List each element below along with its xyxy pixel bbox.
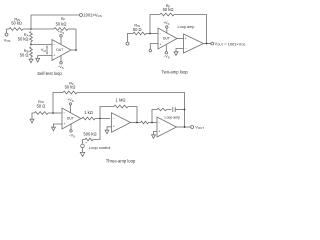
minus sign DUT U4 — [63, 111, 65, 115]
capacitor feedback U6 — [173, 107, 175, 112]
wire R_F to output riser (two-amp) — [174, 15, 207, 44]
label R_IN (two-amp) — [134, 23, 140, 28]
wire feedback resistor to capacitor — [167, 109, 172, 111]
svg-text:Self-test loop: Self-test loop — [37, 71, 62, 76]
node A junction — [99, 118, 101, 120]
terminal +V_S (U4) — [69, 103, 71, 105]
label loop amp (three-amp) — [165, 115, 181, 119]
label +V_S (U4) — [67, 98, 73, 103]
wire U6 noninverting input to ground — [154, 132, 158, 135]
plus sign U3 — [185, 37, 187, 41]
svg-text:−: − — [113, 117, 115, 121]
wire loop control terminal to ground — [82, 148, 84, 153]
wire interstage resistor to U6 — [149, 122, 158, 124]
label DUT U4 — [67, 117, 74, 121]
wire riser R_F to DUT output — [75, 29, 77, 50]
svg-text:+: + — [158, 129, 160, 133]
feedback resistor U6 — [157, 108, 167, 111]
label 50 kOhm (R_A) — [18, 36, 29, 41]
wire R_IN to DUT node — [146, 33, 158, 35]
label 50 kOhm (R_IN) — [11, 21, 22, 26]
ground at DUT U4 noninverting input — [51, 127, 55, 131]
svg-text:50 Ω: 50 Ω — [37, 103, 46, 108]
label 50 kOhm (R_F) — [56, 22, 67, 27]
resistor 1 kOhm — [82, 117, 95, 120]
label R_IN — [14, 17, 20, 22]
output junction (three-amp) — [184, 126, 186, 128]
label V_id — [41, 48, 46, 53]
ground at U3 inverting input — [174, 52, 178, 56]
terminal -V_S (U1) — [60, 62, 63, 65]
label -V_S (U4) — [69, 133, 75, 138]
label 50 kOhm (two-amp R_F) — [163, 7, 174, 12]
wire node 1 to R_F — [31, 28, 54, 30]
wire 1 kOhm to node A — [95, 118, 110, 120]
svg-text:+: + — [113, 125, 115, 129]
terminal -V_S (U4) — [70, 130, 72, 132]
svg-text:DUT: DUT — [67, 117, 74, 121]
wire U6 output — [177, 126, 191, 128]
wire R_F to output riser — [68, 28, 76, 30]
caption two-amp loop — [161, 70, 188, 75]
minus sign U6 — [158, 121, 160, 125]
resistor R_IN 50 Ohm (three-amp) — [35, 112, 49, 115]
terminal -V_S (U2) — [165, 52, 167, 54]
svg-text:−: − — [63, 111, 65, 115]
svg-text:+: + — [53, 53, 55, 57]
label R_IN (three-amp) — [38, 99, 44, 104]
svg-text:Two-amp loop: Two-amp loop — [161, 70, 188, 75]
wire output rail top — [31, 14, 79, 16]
summing node (two-amp) — [149, 33, 151, 35]
op-amp DUT U4 — [62, 108, 81, 129]
svg-text:VOUT: VOUT — [195, 125, 204, 130]
feedback junction on riser — [184, 109, 186, 111]
V_id measurement arrow — [46, 45, 48, 54]
wire node A to 500 kOhm — [93, 119, 100, 140]
ground below loop control — [80, 152, 84, 156]
terminal at DUT U2 noninverting input — [149, 49, 151, 51]
resistor R_B 50 Ohm — [30, 47, 33, 57]
wire riser node 1 to output rail — [30, 15, 32, 29]
svg-text:Loop amp: Loop amp — [178, 25, 195, 29]
positive supply lead DUT U1 — [60, 37, 62, 44]
terminal V_os — [5, 33, 8, 36]
svg-text:−: − — [158, 121, 160, 125]
node 1 junction — [30, 28, 32, 30]
ground below R_B — [29, 59, 33, 63]
wire 500 kOhm to loop control terminal — [83, 140, 86, 145]
label R_F (two-amp) — [166, 3, 171, 8]
terminal 1001xVos — [80, 14, 83, 17]
resistor R_F 50 kOhm — [54, 28, 68, 31]
label 50 Ohm (R_B) — [20, 52, 29, 57]
ground at U6 noninverting input — [152, 135, 156, 139]
wire R_A to node 2 — [30, 42, 32, 45]
wire riser to R_F rail — [150, 15, 160, 34]
svg-text:−: − — [185, 46, 187, 50]
minus sign DUT U2 — [159, 32, 161, 36]
wire DUT output — [71, 49, 76, 51]
negative supply lead DUT U1 — [60, 56, 62, 62]
minus sign DUT U1 — [53, 43, 55, 47]
svg-text:50 kΩ: 50 kΩ — [11, 21, 22, 26]
terminal V_os drop wire — [6, 29, 8, 33]
svg-text:+: + — [63, 122, 65, 126]
plus sign DUT U1 — [53, 53, 55, 57]
wire U5 output — [131, 122, 141, 124]
node B junction — [151, 122, 153, 124]
label R_A — [24, 32, 29, 37]
wire R_IN to node 1 — [23, 28, 31, 30]
svg-text:1001×VOS: 1001×VOS — [83, 13, 101, 18]
plus sign U6 — [158, 129, 160, 133]
label 1 MOhm — [116, 97, 126, 102]
label 50 Ohm (three-amp) — [37, 103, 46, 108]
wire 1 MOhm to U5 output — [128, 107, 137, 123]
resistor R_A 50 kOhm — [30, 32, 33, 42]
plus sign U5 — [113, 125, 115, 129]
label -V_S (U1) — [57, 65, 63, 70]
wire R_IN to DUT node (three-amp) — [48, 112, 62, 114]
label V_os — [4, 38, 11, 43]
positive supply lead DUT U4 — [70, 105, 72, 113]
plus sign DUT U4 — [63, 122, 65, 126]
svg-text:50 Ω: 50 Ω — [20, 52, 29, 57]
label -V_S (U2) — [163, 55, 169, 60]
wire V_os input to node 1 — [7, 28, 10, 30]
svg-text:−: − — [53, 43, 55, 47]
wire node 2 to DUT inverting input — [31, 44, 52, 46]
svg-text:DUT: DUT — [163, 37, 170, 41]
label 500 kOhm — [83, 132, 96, 137]
svg-text:50 Ω: 50 Ω — [133, 27, 142, 32]
resistor 500 kOhm — [85, 138, 93, 141]
negative supply lead DUT U4 — [70, 124, 72, 129]
wire input terminal riser — [128, 34, 134, 43]
resistor 1 MOhm — [114, 105, 128, 108]
svg-text:VOUT = 1001×VOS: VOUT = 1001×VOS — [215, 41, 246, 46]
terminal V_OUT (three-amp) — [191, 126, 194, 129]
ground at DUT noninverting input — [36, 58, 40, 62]
ground at U5 noninverting input — [105, 130, 109, 134]
resistor R_IN 50 kOhm — [9, 28, 23, 31]
wire DUT U4 noninverting input to ground — [53, 124, 62, 127]
label 50 Ohm (two-amp) — [133, 27, 142, 32]
label 50 kOhm (three-amp R_F) — [65, 85, 76, 90]
minus sign U5 — [113, 117, 115, 121]
svg-text:Three-amp loop: Three-amp loop — [106, 158, 136, 163]
svg-text:50 kΩ: 50 kΩ — [18, 36, 29, 41]
minus sign U3 — [185, 46, 187, 50]
U5 output junction — [136, 122, 138, 124]
plus sign loop control — [85, 141, 87, 145]
wire DUT noninverting input to ground — [38, 56, 52, 59]
ground at input (three-amp) — [30, 119, 34, 123]
svg-text:Loop amp: Loop amp — [165, 115, 181, 119]
wire input ground to R_IN — [32, 113, 35, 119]
svg-text:Loop control: Loop control — [89, 145, 111, 150]
svg-text:+: + — [185, 37, 187, 41]
DUT output junction — [75, 49, 77, 51]
svg-text:VOS: VOS — [4, 38, 11, 43]
op-amp loop amp U6 — [157, 117, 177, 137]
label loop amp (two-amp) — [178, 25, 195, 29]
svg-text:1 kΩ: 1 kΩ — [84, 110, 93, 115]
svg-text:−: − — [159, 32, 161, 36]
op-amp DUT U1 — [52, 40, 71, 61]
wire U3 inverting input to ground — [176, 49, 184, 52]
label DUT U1 — [56, 48, 63, 52]
plus sign DUT U2 — [159, 42, 161, 46]
caption three-amp loop — [106, 158, 136, 163]
label 1001xVos — [83, 13, 101, 18]
label DUT U2 — [163, 37, 170, 41]
positive supply lead DUT U2 — [166, 28, 168, 33]
resistor R_F 50 kOhm (two-amp) — [160, 13, 174, 16]
terminal input (two-amp loop) — [126, 42, 129, 45]
node 2 junction — [30, 44, 32, 46]
op-amp loop amp U3 — [184, 34, 204, 53]
terminal +V_S (U1) — [60, 35, 63, 38]
wire U3 output — [204, 43, 211, 45]
wire R_B to ground — [30, 57, 32, 59]
svg-text:50 kΩ: 50 kΩ — [56, 22, 67, 27]
label R_F (three-amp) — [69, 81, 74, 86]
svg-text:50 kΩ: 50 kΩ — [163, 7, 174, 12]
resistor interstage — [141, 121, 149, 124]
label +V_S (U2) — [163, 21, 169, 26]
caption self-test loop — [37, 71, 62, 76]
svg-text:50 kΩ: 50 kΩ — [65, 85, 76, 90]
terminal +V_S (U2) — [166, 26, 168, 28]
wire U5 noninverting input to ground — [107, 127, 112, 130]
label +V_S (U1) — [58, 30, 64, 35]
svg-text:+: + — [159, 42, 161, 46]
label R_F — [61, 16, 66, 21]
output junction (two-amp) — [206, 43, 208, 45]
resistor R_F 50 kOhm (three-amp) — [63, 91, 77, 94]
wire riser to R_F rail (three-amp) — [53, 93, 63, 114]
svg-text:1 MΩ: 1 MΩ — [116, 97, 126, 102]
label 1 kOhm — [84, 110, 93, 115]
wire DUT U2 output to loop amp — [177, 38, 184, 40]
label loop control — [89, 145, 111, 150]
wire capacitor to output riser — [175, 109, 184, 111]
wire DUT U4 output — [81, 118, 82, 120]
negative supply lead DUT U2 — [165, 45, 167, 52]
label R_B — [24, 48, 29, 53]
op-amp DUT U2 — [158, 28, 177, 49]
label V_OUT (three-amp) — [195, 125, 204, 130]
svg-text:DUT: DUT — [56, 48, 63, 52]
op-amp U5 — [112, 113, 131, 132]
label V_OUT = 1001xVos — [215, 41, 246, 46]
resistor R_IN 50 Ohm (two-amp) — [133, 32, 146, 35]
wire DUT U2 noninverting input to terminal — [150, 44, 158, 50]
wire R_F rail to output riser (three-amp) — [77, 93, 185, 128]
terminal V_OUT (two-amp) — [211, 42, 214, 45]
svg-text:500 kΩ: 500 kΩ — [83, 132, 96, 137]
wire riser node B to feedback — [152, 110, 157, 123]
svg-text:+: + — [85, 141, 87, 145]
terminal loop control — [81, 144, 85, 148]
wire riser node A to 1 MOhm — [100, 107, 114, 119]
summing node (three-amp) — [52, 112, 54, 114]
